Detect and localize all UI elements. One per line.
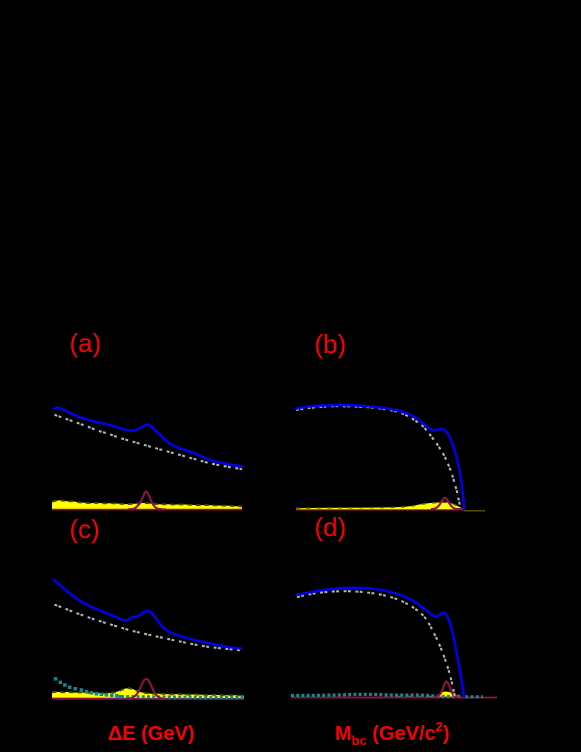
svg-text:(d): (d) [315, 512, 347, 542]
panel c: teal dotted curve (descending part) [54, 677, 122, 698]
panel a: dark dashed edge on yellow top [52, 500, 242, 506]
panel d: teal dots right of endpoint [465, 695, 483, 698]
panel a: signal baseline (dark red) [52, 508, 242, 510]
panel d: thin yellow-olive line left of bump [396, 696, 435, 698]
panel d: signal baseline (dark red) [291, 696, 497, 698]
panel d: grey dashed background curve [297, 591, 455, 697]
panel d: teal dotted flat line [291, 694, 462, 696]
panel c: signal baseline (dark red) [52, 698, 244, 700]
svg-text:(a): (a) [70, 328, 102, 358]
panel b: signal baseline (dark red) [296, 509, 463, 511]
svg-text:(b): (b) [315, 329, 347, 359]
panel d: yellow signal bump [435, 692, 461, 698]
panel c: grey dashed background curve [55, 605, 242, 651]
panel d: signal (dark red) peak [433, 682, 459, 698]
panel b: blue total fit curve [296, 405, 464, 508]
panel b: yellow continuum histogram [296, 502, 462, 509]
panel b: baseline stub right of endpoint [464, 510, 486, 512]
panel a: yellow continuum histogram [52, 500, 242, 509]
panel c: dark dashed edge on yellow top [52, 688, 244, 695]
panel c: signal (dark red) peak [127, 679, 164, 699]
panel d: blue total fit curve [297, 588, 464, 697]
panel a: blue total fit curve [55, 408, 243, 467]
panel b: signal (dark red) peak [431, 498, 463, 509]
panel a: grey dashed background curve [55, 415, 243, 469]
panel c: teal dotted flat line [121, 695, 244, 699]
svg-text:ΔE (GeV): ΔE (GeV) [108, 723, 195, 745]
panel c: yellow continuum histogram [52, 688, 244, 698]
panel b: dark dashed edge on yellow top [296, 502, 461, 508]
svg-text:(c): (c) [70, 514, 100, 544]
panel b: grey dashed background curve [296, 406, 461, 509]
panel a: signal (dark red) peak [128, 491, 166, 509]
panel c: blue total fit curve [54, 580, 241, 649]
